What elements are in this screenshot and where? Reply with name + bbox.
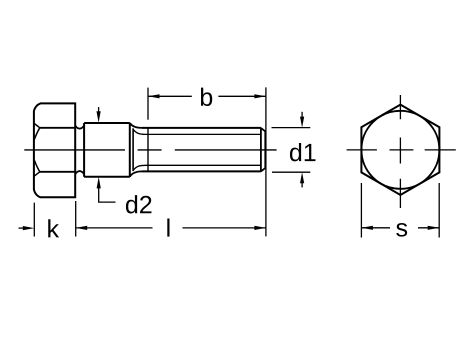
end face (264, 131, 266, 168)
dim b+l extension right (265, 87, 267, 236)
dim b arrow right (254, 94, 266, 98)
dim s arrow left (361, 226, 373, 230)
head chamfer arcs upper facet line (34, 123, 40, 140)
transition curve lower (130, 171, 142, 176)
hex head outline (34, 103, 75, 197)
thread start vertical (132, 128, 134, 171)
dim s extension right (438, 183, 440, 238)
thread runout curve lower (133, 165, 146, 170)
dim d1 extension bottom (272, 171, 310, 173)
label d1 (290, 143, 316, 161)
dim d1 arrow top (301, 112, 303, 118)
thread outer lines d1 (142, 128, 261, 171)
dim d2 arrow top (98, 107, 100, 113)
dim k extension right (75, 201, 77, 237)
shank cylinder d2 (84, 123, 130, 177)
head facet line lower (40, 171, 75, 173)
label b (201, 88, 212, 106)
centerline bolt axis (24, 149, 276, 151)
end chamfer vertical (260, 128, 262, 171)
label l (167, 218, 169, 236)
dim s arrow right (428, 226, 440, 230)
dim s line (361, 227, 439, 229)
label k (48, 219, 59, 237)
dim d1 arrow bottom (301, 181, 303, 187)
full thread boundary (147, 128, 149, 171)
dim b extension left (147, 88, 149, 120)
label s (396, 223, 407, 237)
dim l arrow right (254, 226, 266, 230)
dim s extension left (360, 183, 362, 238)
neck fillet upper (75, 126, 84, 129)
neck fillet lower (75, 171, 84, 174)
hex horizontal centerline (347, 149, 456, 151)
hex vertical centerline (399, 95, 401, 208)
thread runout curve upper (133, 129, 146, 134)
dim b arrow left (148, 94, 160, 98)
dim b line (148, 95, 266, 97)
head facet line upper (40, 127, 75, 129)
thread minor lines (146, 134, 261, 165)
dim k extension left (33, 203, 35, 237)
dim l line (76, 227, 266, 229)
transition curve upper (130, 123, 142, 128)
dim k outside arrow (19, 227, 25, 229)
hexagon head end view (361, 105, 439, 195)
dim l arrow left (76, 226, 88, 230)
dim d1 extension top (272, 127, 311, 129)
inscribed circle (361, 111, 439, 189)
label d2 (126, 195, 151, 213)
dim d2 arrow bottom with leader (99, 186, 116, 202)
head chamfer arcs lower facet line (34, 160, 40, 177)
end chamfer diagonals (261, 128, 266, 171)
